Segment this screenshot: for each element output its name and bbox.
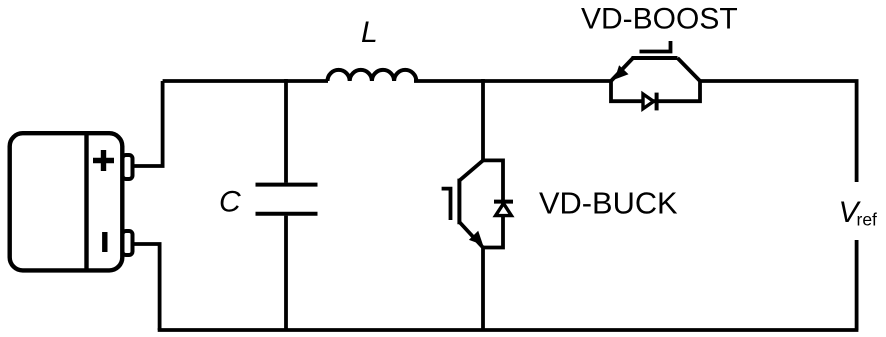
battery minus marking [102, 232, 107, 252]
wire battery- down to bottom rail [133, 244, 160, 330]
diode of VD-BOOST triangle [643, 94, 654, 109]
svg-text:VD-BUCK: VD-BUCK [539, 186, 678, 221]
transistor VD-BUCK emitter slant [459, 222, 483, 248]
battery divider line [84, 131, 88, 272]
svg-text:C: C [219, 186, 241, 219]
capacitor C bottom wire [284, 216, 288, 330]
svg-text:L: L [361, 16, 378, 49]
wire VD-BUCK branch top [481, 79, 485, 160]
transistor VD-BUCK channel bar [457, 179, 461, 225]
wire battery+ up to top rail [133, 81, 163, 166]
wire top rail middle segment [414, 79, 611, 83]
gate of VD-BOOST [640, 41, 671, 52]
diode loop of VD-BUCK [483, 160, 503, 247]
transistor VD-BUCK collector slant [459, 160, 483, 180]
transistor VD-BOOST arrow [615, 65, 629, 79]
svg-text:VD-BOOST: VD-BOOST [581, 3, 738, 36]
wire top rail left segment [163, 79, 328, 83]
inductor L [328, 70, 417, 81]
transistor VD-BOOST channel bar [632, 56, 678, 60]
wire VD-BUCK branch bottom [481, 248, 485, 331]
capacitor C top wire [284, 79, 288, 183]
battery negative terminal bump [123, 231, 133, 255]
transistor VD-BUCK arrow [469, 231, 483, 245]
diode loop of VD-BOOST [611, 81, 700, 101]
diode of VD-BOOST cathode bar [655, 93, 659, 111]
wire right vertical lower segment [855, 240, 859, 330]
gate of VD-BUCK [442, 189, 451, 220]
diode of VD-BUCK triangle [496, 203, 512, 215]
transistor VD-BOOST left slant with arrow [611, 58, 633, 81]
battery body [10, 133, 123, 270]
capacitor C plates [256, 185, 318, 214]
battery plus marking [93, 150, 114, 171]
wire bottom rail [158, 328, 859, 332]
svg-text:ref: ref [857, 209, 878, 229]
transistor VD-BOOST right slant [678, 58, 701, 81]
diode of VD-BUCK cathode bar [494, 200, 513, 204]
wire top rail right segment down to Vref gap [700, 81, 857, 182]
battery positive terminal bump [123, 155, 133, 179]
